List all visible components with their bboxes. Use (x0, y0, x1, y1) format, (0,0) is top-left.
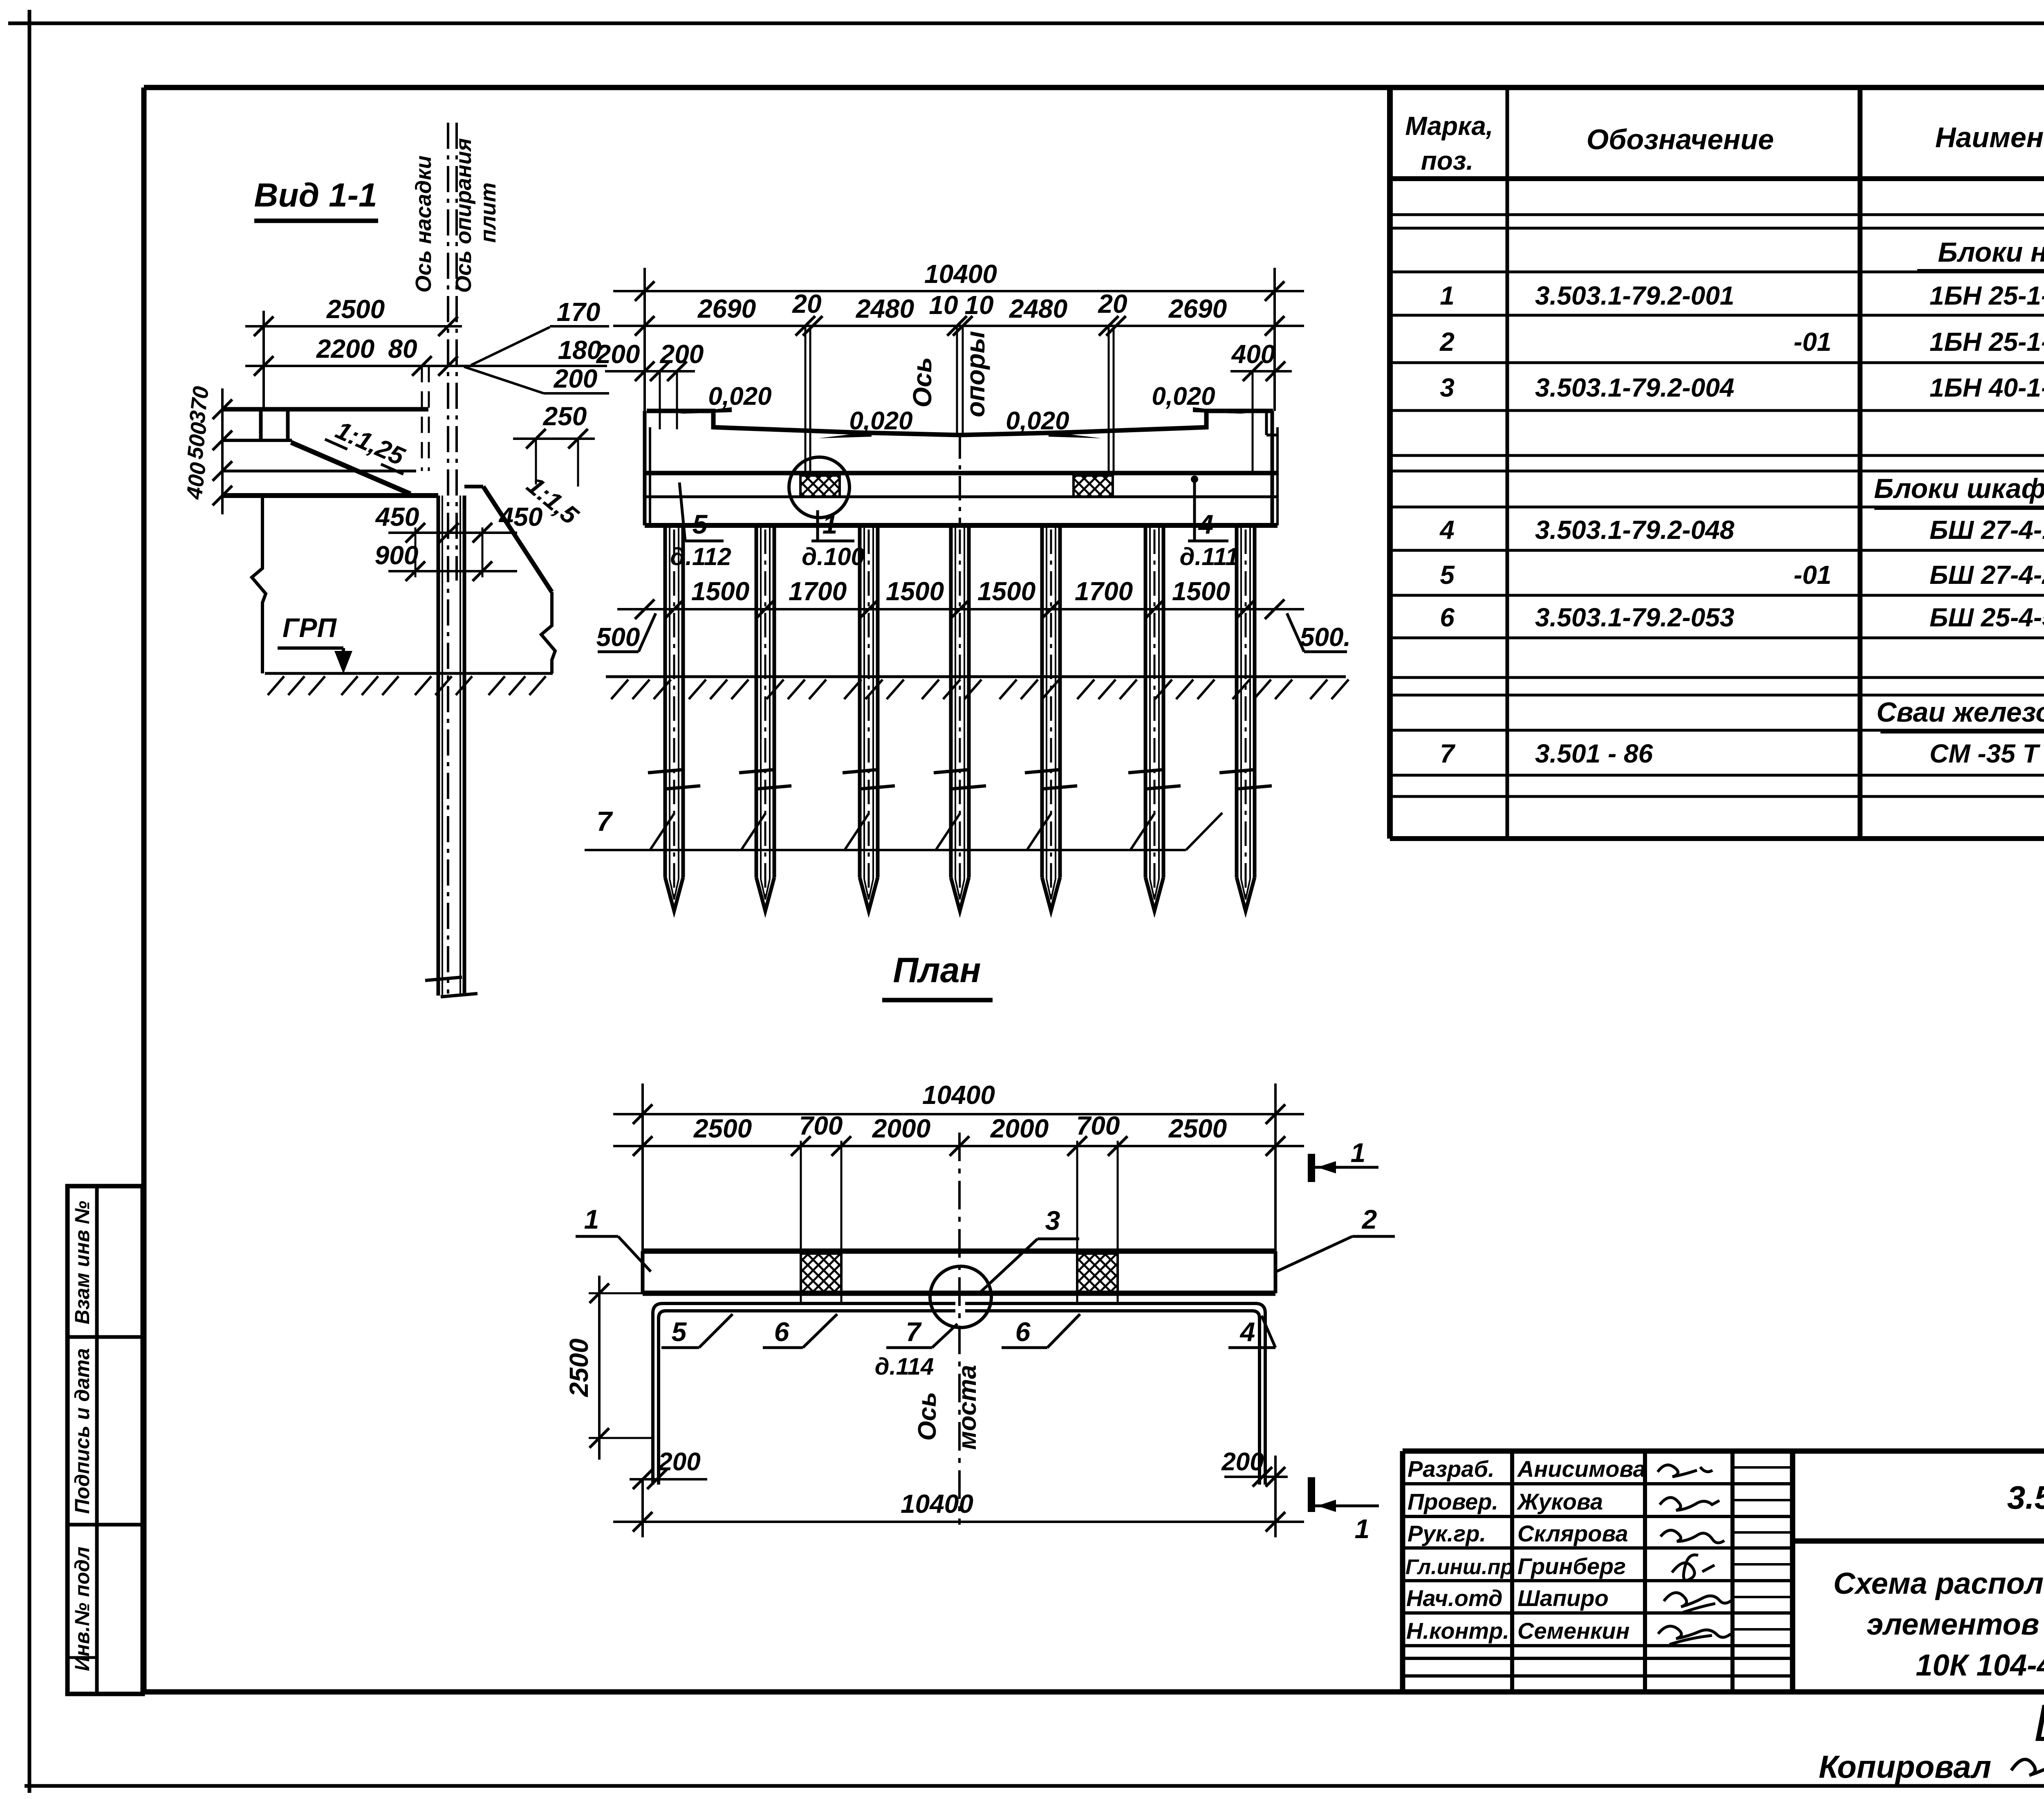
plan: label 7 / d.114 with leader (875, 1317, 957, 1380)
elevation: label 1 / d.100 (802, 509, 865, 570)
svg-text:2480: 2480 (1009, 294, 1067, 323)
svg-text:2500: 2500 (326, 294, 385, 324)
svg-text:3: 3 (1045, 1205, 1060, 1236)
elevation: pile 1 (648, 525, 700, 911)
svg-text:450: 450 (375, 502, 419, 532)
svg-text:2500: 2500 (693, 1114, 752, 1143)
svg-text:200: 200 (554, 364, 598, 393)
elevation: pile 4 (934, 525, 986, 911)
plan: top dim 10400 (613, 1080, 1304, 1251)
view 1-1: ground line (265, 673, 553, 695)
view 1-1: cap outline (222, 409, 552, 592)
elevation: slope marks 0,020 (679, 382, 1246, 438)
elevation: pile 7 (1219, 525, 1272, 911)
svg-text:Семенкин: Семенкин (1517, 1618, 1629, 1644)
view 1-1: dim 2200 80 (245, 334, 607, 471)
svg-text:4: 4 (1198, 509, 1214, 539)
svg-text:опоры: опоры (961, 331, 990, 417)
elevation: pile spacing dims (617, 576, 1304, 619)
svg-text:10К 104-4б: 10К 104-4б (1916, 1648, 2044, 1682)
svg-text:700: 700 (799, 1111, 843, 1140)
elevation: axis of pier (Ось опоры) (908, 326, 990, 525)
svg-text:Взам инв №: Взам инв № (71, 1201, 94, 1324)
svg-text:5: 5 (672, 1317, 687, 1347)
elevation: pile 3 (843, 525, 895, 911)
svg-text:Склярова: Склярова (1517, 1521, 1628, 1546)
svg-text:Рук.гр.: Рук.гр. (1407, 1521, 1486, 1546)
elevation: cap crowned top surface (647, 411, 1273, 435)
svg-text:Ось: Ось (913, 1392, 941, 1441)
svg-text:0,020: 0,020 (849, 407, 912, 435)
svg-text:БШ 27-4-1: БШ 27-4-1 (1930, 515, 2044, 545)
plan: dim row 2500/700/2000/2000/700/2500 (613, 1111, 1304, 1254)
view 1-1: left vertical dim chain 370/500/400 (182, 385, 232, 514)
parts table grid (1390, 87, 2044, 839)
svg-text:Подпись и дата: Подпись и дата (71, 1348, 94, 1514)
plan: label 1 with leader (576, 1204, 651, 1272)
svg-text:7: 7 (1440, 739, 1456, 768)
parts table rows (1439, 281, 2044, 768)
elevation: block joint lines right (1109, 326, 1114, 476)
view 1-1: label 170 with leader (471, 297, 609, 365)
svg-text:1: 1 (823, 509, 838, 539)
elevation: left dim 200 200 (596, 339, 704, 429)
svg-text:2690: 2690 (697, 294, 756, 323)
svg-text:200: 200 (1221, 1448, 1264, 1476)
view 1-1: axis of slab bearing (Ось опирания плит) (451, 123, 500, 581)
svg-text:поз.: поз. (1421, 146, 1474, 175)
plan: label 4 with leader (1228, 1316, 1275, 1348)
svg-text:3.503.1-79.2-048: 3.503.1-79.2-048 (1535, 515, 1735, 545)
svg-text:2690: 2690 (1168, 294, 1227, 323)
svg-text:400: 400 (1231, 339, 1275, 369)
elevation: pile 6 (1128, 525, 1181, 911)
plan title (882, 951, 993, 1000)
svg-text:500: 500 (596, 622, 640, 652)
svg-text:Н.контр.: Н.контр. (1406, 1618, 1509, 1644)
svg-text:-01: -01 (1794, 327, 1832, 357)
svg-text:2500: 2500 (564, 1339, 594, 1397)
svg-text:1500: 1500 (1172, 576, 1230, 606)
svg-text:500.: 500. (1300, 622, 1351, 652)
svg-text:20: 20 (1098, 289, 1127, 319)
svg-text:Сваи железобетонные: Сваи железобетонные (1876, 697, 2044, 728)
title block names (1516, 1456, 1646, 1644)
svg-text:6: 6 (774, 1317, 790, 1347)
title block role labels (1405, 1456, 1513, 1644)
svg-text:6: 6 (1440, 603, 1455, 632)
svg-text:0,020: 0,020 (1006, 407, 1069, 435)
svg-text:элементов опор: элементов опор (1867, 1607, 2044, 1641)
svg-text:Блоки шкафной стенки: Блоки шкафной стенки (1874, 473, 2044, 504)
svg-text:400: 400 (182, 461, 211, 501)
plan: left dim 200 (630, 1448, 707, 1489)
elevation: pile row label 7 with leader (585, 806, 1222, 850)
svg-text:Жукова: Жукова (1516, 1489, 1603, 1514)
elevation: detail circle around pad (789, 457, 849, 518)
elevation: top dim 10400 (613, 259, 1304, 411)
view 1-1: dim 900 (375, 527, 517, 581)
svg-text:2500: 2500 (1168, 1114, 1227, 1143)
svg-text:7: 7 (596, 806, 613, 837)
sheet bottom crop line (25, 1784, 2044, 1788)
svg-text:Ось: Ось (908, 357, 937, 407)
svg-text:2000: 2000 (872, 1114, 930, 1143)
svg-text:10: 10 (929, 290, 958, 320)
svg-text:2: 2 (1361, 1204, 1377, 1234)
svg-text:2000: 2000 (990, 1114, 1049, 1143)
svg-text:д.114: д.114 (875, 1353, 934, 1380)
view 1-1: GRP mark (278, 612, 352, 674)
svg-text:180: 180 (558, 335, 602, 365)
plan: label 6 left with leader (763, 1314, 837, 1348)
view 1-1: axis of cap (Ось насадки) (411, 123, 448, 994)
view 1-1: right break boundary (541, 592, 555, 673)
svg-text:1500: 1500 (691, 576, 749, 606)
plan: cap band (643, 1251, 1275, 1293)
sheet left crop line (28, 10, 31, 1793)
svg-text:моста: моста (953, 1365, 982, 1450)
svg-text:1: 1 (1351, 1137, 1366, 1168)
svg-text:Гринберг: Гринберг (1517, 1553, 1626, 1579)
title block signatures (1658, 1465, 1732, 1644)
elevation: bearing pad left (hatched) (800, 476, 840, 497)
elevation: dim row 2690/20/2480/10,10/2480/20/2690 (613, 289, 1304, 336)
plan: bearing pad left (801, 1254, 841, 1292)
elevation: left 500 label (596, 613, 656, 652)
sheet top crop line (8, 22, 2044, 25)
svg-text:0,020: 0,020 (1152, 382, 1215, 410)
svg-text:1: 1 (584, 1204, 599, 1234)
svg-text:Анисимова: Анисимова (1517, 1456, 1646, 1482)
plan: bearing pad right (1077, 1254, 1118, 1292)
svg-text:Разраб.: Разраб. (1407, 1456, 1495, 1482)
svg-text:0,020: 0,020 (708, 382, 771, 410)
svg-text:Шапиро: Шапиро (1517, 1585, 1609, 1611)
plan: label 3 with leader (978, 1205, 1079, 1294)
elevation: bearing pad right (hatched) (1074, 476, 1113, 497)
svg-text:Провер.: Провер. (1407, 1489, 1498, 1514)
view 1-1 title (254, 177, 378, 221)
svg-text:1БН 25-1-2: 1БН 25-1-2 (1930, 327, 2044, 357)
svg-text:д.111: д.111 (1180, 543, 1239, 570)
svg-text:1БН 40-1-3: 1БН 40-1-3 (1930, 373, 2044, 402)
plan: right dim 200 (1221, 1448, 1288, 1487)
svg-text:5: 5 (1440, 560, 1455, 590)
section cut mark 1 bottom right (1311, 1477, 1379, 1544)
svg-text:1700: 1700 (789, 576, 847, 606)
svg-text:Блоки насадки: Блоки насадки (1938, 237, 2044, 268)
svg-text:2: 2 (1439, 327, 1455, 357)
svg-text:1: 1 (1440, 281, 1455, 310)
view 1-1: slope label 1:1.25 (325, 413, 415, 474)
svg-text:10: 10 (964, 290, 993, 320)
svg-text:Схема расположения: Схема расположения (1833, 1566, 2044, 1600)
svg-text:700: 700 (1076, 1111, 1120, 1140)
svg-text:2200: 2200 (316, 334, 374, 363)
svg-text:Наименование: Наименование (1935, 121, 2044, 153)
svg-text:4: 4 (1439, 515, 1455, 545)
title block grid (1403, 1451, 2044, 1692)
view 1-1: left break boundary (252, 496, 266, 673)
svg-text:Ц00632-02: Ц00632-02 (2034, 1694, 2044, 1752)
elevation: pile 5 (1025, 525, 1077, 911)
svg-text:200: 200 (660, 339, 704, 369)
svg-text:2480: 2480 (856, 294, 914, 323)
plan: detail circle at joint (930, 1266, 991, 1328)
svg-text:Обозначение: Обозначение (1587, 123, 1774, 155)
svg-text:3.503.1 - 79.1 - 0.39: 3.503.1 - 79.1 - 0.39 (2007, 1479, 2044, 1516)
svg-text:250: 250 (543, 402, 587, 431)
svg-text:900: 900 (375, 541, 419, 570)
plan: label 2 with leader (1276, 1204, 1395, 1272)
section cut mark 1 top right (1311, 1137, 1378, 1182)
svg-text:Гл.инш.пр: Гл.инш.пр (1405, 1555, 1513, 1579)
svg-text:450: 450 (498, 502, 543, 532)
svg-text:Нач.отд: Нач.отд (1406, 1585, 1503, 1611)
svg-text:10400: 10400 (901, 1489, 973, 1519)
svg-text:3.503.1-79.2-053: 3.503.1-79.2-053 (1535, 603, 1735, 632)
svg-text:плит: плит (476, 182, 500, 243)
svg-text:Инв.№ подл: Инв.№ подл (71, 1547, 94, 1671)
elevation: pile 2 (739, 525, 791, 911)
svg-text:Ось опирания: Ось опирания (451, 138, 476, 293)
svg-text:1700: 1700 (1075, 576, 1133, 606)
elevation: block joint lines left (805, 326, 810, 476)
elevation: label 4 / d.111 (1180, 476, 1239, 570)
plan: vertical dim 2500 (564, 1276, 654, 1460)
svg-text:1БН 25-1-1: 1БН 25-1-1 (1930, 281, 2044, 310)
view 1-1: dim 2500 (245, 294, 462, 409)
elevation: label 5 / d.112 (670, 482, 731, 570)
svg-text:Вид 1-1: Вид 1-1 (254, 177, 377, 214)
plan: bottom dim 10400 (613, 1456, 1304, 1537)
svg-text:План: План (893, 951, 981, 990)
view 1-1: dim 250 (513, 402, 595, 487)
svg-text:СМ -35 Т: СМ -35 Т (1930, 739, 2041, 768)
svg-text:3.503.1-79.2-001: 3.503.1-79.2-001 (1535, 281, 1735, 310)
view 1-1: pile (425, 496, 477, 997)
svg-text:1500: 1500 (886, 576, 944, 606)
svg-text:Ось насадки: Ось насадки (411, 155, 436, 293)
svg-text:170: 170 (557, 297, 601, 327)
svg-text:БШ 27-4-2: БШ 27-4-2 (1930, 560, 2044, 590)
svg-text:80: 80 (388, 334, 417, 363)
svg-text:Марка,: Марка, (1405, 111, 1493, 141)
svg-text:Копировал: Копировал (1819, 1749, 1991, 1785)
plan: bridge axis (Ось моста) (913, 1133, 982, 1525)
plan: label 6 right with leader (1002, 1314, 1080, 1348)
svg-text:3: 3 (1440, 373, 1455, 402)
svg-text:-01: -01 (1794, 560, 1832, 590)
elevation: right 500 label (1287, 613, 1351, 652)
svg-text:6: 6 (1015, 1317, 1031, 1347)
svg-text:БШ 25-4-5: БШ 25-4-5 (1930, 603, 2044, 632)
svg-text:5: 5 (693, 509, 708, 539)
svg-text:3.503.1-79.2-004: 3.503.1-79.2-004 (1535, 373, 1735, 402)
svg-text:ГРП: ГРП (282, 612, 337, 643)
svg-text:7: 7 (906, 1317, 922, 1347)
svg-text:200: 200 (596, 339, 640, 369)
elevation: cap body (645, 411, 1277, 525)
svg-text:д.100: д.100 (802, 543, 865, 570)
svg-text:д.112: д.112 (670, 543, 731, 570)
svg-text:1500: 1500 (977, 576, 1035, 606)
svg-text:10400: 10400 (924, 259, 997, 289)
plan: label 5 with leader (661, 1314, 733, 1348)
view 1-1: dim 450 450 (375, 502, 543, 543)
view 1-1: label 200 with leader (464, 364, 609, 393)
copier signature (2011, 1759, 2044, 1786)
title block title (1833, 1566, 2044, 1682)
parts table section titles (1874, 237, 2044, 731)
svg-text:10400: 10400 (922, 1080, 995, 1110)
plan: cabinet wall strip (653, 1293, 1265, 1485)
svg-text:20: 20 (792, 289, 821, 319)
svg-text:4: 4 (1239, 1317, 1255, 1347)
svg-text:500: 500 (183, 421, 212, 460)
svg-text:3.501 - 86: 3.501 - 86 (1535, 739, 1653, 768)
elevation: right dim 400 (1230, 339, 1292, 472)
elevation: ground line with hatching (606, 677, 1349, 699)
svg-text:1: 1 (1355, 1514, 1370, 1544)
parts table header text (1405, 107, 2044, 175)
left margin attribute boxes (67, 1186, 143, 1694)
svg-text:370: 370 (185, 385, 214, 424)
